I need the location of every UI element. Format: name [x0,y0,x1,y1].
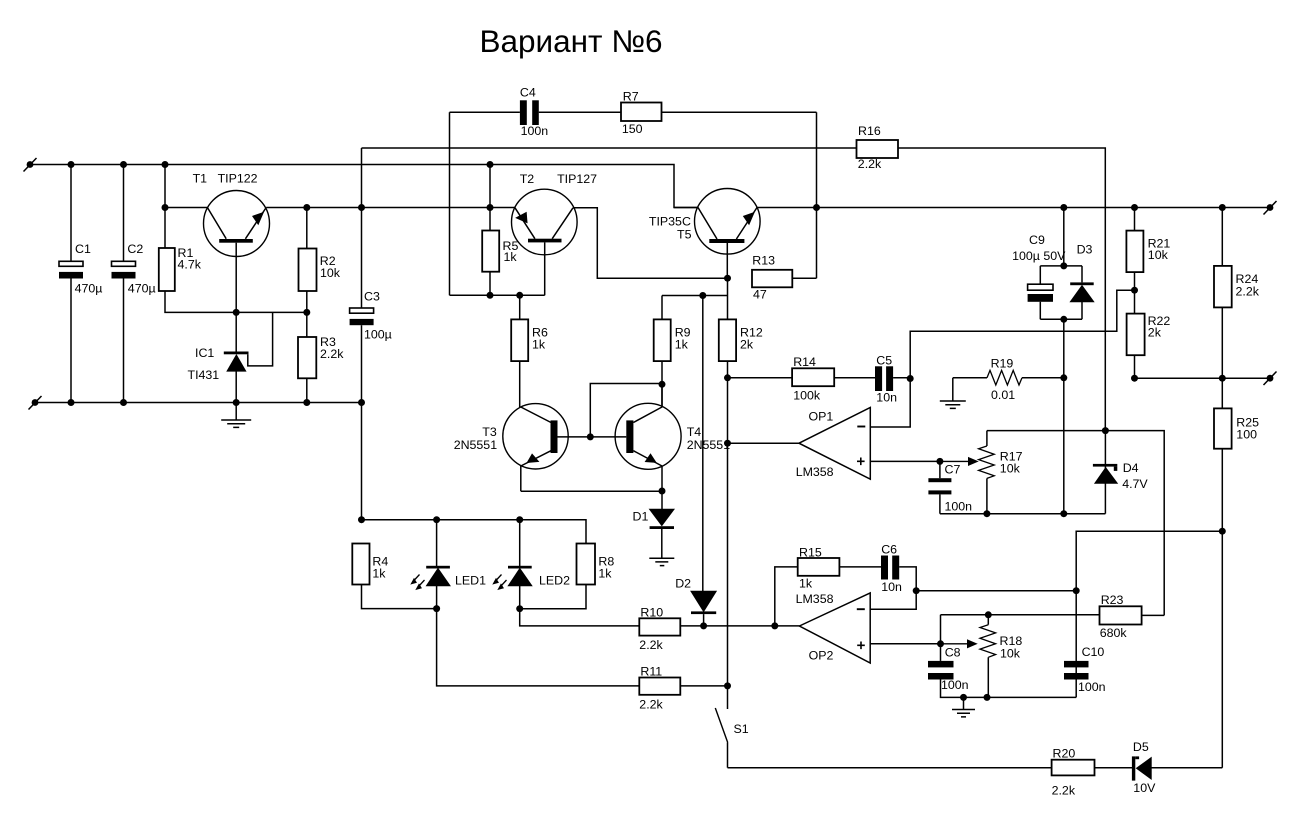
svg-text:4.7V: 4.7V [1122,477,1148,491]
potentiometer R18 10k [987,615,989,625]
wire R25 bottom to feedback loop [1076,531,1222,697]
svg-text:T1: T1 [193,172,208,186]
svg-text:470µ: 470µ [128,281,156,295]
resistor R14 100k [728,377,793,379]
node on top rail above C1 [68,161,75,168]
wire C6 node to OP2 inverting [870,591,916,610]
wire C9 column down [1063,319,1065,513]
node y207 R2 column [303,204,310,211]
svg-text:2.2k: 2.2k [1052,783,1076,797]
resistor R24 2.2k [1221,208,1223,266]
svg-text:LED1: LED1 [455,574,486,588]
svg-text:1k: 1k [675,337,689,351]
node LED2 bottom [516,605,523,612]
svg-text:4.7k: 4.7k [178,258,202,272]
node feedback C10 column [1073,587,1080,594]
svg-text:R7: R7 [623,90,639,104]
node R22 bottom [1131,375,1138,382]
output terminal right y207 [1267,204,1274,211]
svg-text:D4: D4 [1123,461,1139,475]
diode D5 10V zener [1132,756,1135,780]
wire R5 vertical [489,165,491,296]
ground under R19 [952,378,954,401]
LED1 [411,520,486,609]
svg-text:1k: 1k [598,567,612,581]
wire emitter row y295 [450,294,545,296]
node C7 R17 wiper [936,458,943,465]
resistor R9 1k [654,319,671,361]
svg-text:R15: R15 [799,546,822,560]
resistor R5 1k [482,231,499,272]
node R11 S1 column [724,682,731,689]
node y207 R21 column [1131,204,1138,211]
node y207 R1 column [162,204,169,211]
svg-text:C8: C8 [945,646,961,660]
diode D1 [661,491,663,509]
svg-text:100: 100 [1236,428,1257,442]
potentiometer R17 10k [986,431,988,446]
wire R17 top loop [987,431,1164,616]
transistor T3 2N5551 [454,404,569,492]
svg-text:100n: 100n [945,500,973,514]
svg-text:2.2k: 2.2k [320,347,344,361]
node R3 bottom rail [303,399,310,406]
svg-text:OP2: OP2 [809,649,834,663]
svg-text:R20: R20 [1053,747,1076,761]
LED2 [493,520,570,609]
node D4 top [1102,427,1109,434]
node C9 D3 top [1060,262,1067,269]
op-amp OP2 LM358 [796,592,871,663]
svg-text:LED2: LED2 [539,574,570,588]
wire top rail [30,165,698,208]
svg-text:T4: T4 [687,425,702,439]
svg-text:C6: C6 [881,543,897,557]
svg-text:100n: 100n [941,678,969,692]
ground under C8 row [963,697,965,709]
svg-text:100µ 50V: 100µ 50V [1012,249,1066,263]
diode D4 4.7V zener [1104,431,1106,514]
node R21 R22 junction [1131,287,1138,294]
svg-text:C10: C10 [1082,645,1105,659]
svg-text:T5: T5 [677,228,692,242]
node base junction [587,433,594,440]
diode D2 [702,296,704,592]
svg-text:R11: R11 [640,665,662,679]
svg-text:47: 47 [753,288,767,302]
resistor R22 2k [1134,272,1136,314]
svg-text:2.2k: 2.2k [1236,284,1260,298]
wire C6 node feedback to R23 C10 [916,590,1076,592]
svg-text:470µ: 470µ [75,281,103,295]
capacitor C1 [70,165,72,262]
svg-text:1k: 1k [504,250,518,264]
node R2-R3 junction y312 [303,309,310,316]
svg-text:D3: D3 [1077,243,1093,257]
wire right emitter row y295 [662,278,728,319]
svg-text:10k: 10k [1000,647,1021,661]
node T5 emitter R13 [724,275,731,282]
wire OP1 noninverting input [870,460,940,462]
sense terminal right y378 [1267,375,1274,382]
svg-text:D2: D2 [675,577,691,591]
resistor R6 1k [519,295,521,319]
svg-text:LM358: LM358 [796,592,834,606]
node emitters D1 [659,488,666,495]
node C5 out [907,375,914,382]
wire output column x727 [727,378,729,686]
transistor T2 TIP127 [512,172,598,295]
resistor R10 2.2k [520,609,640,626]
svg-text:2k: 2k [1148,326,1162,340]
svg-text:10V: 10V [1133,781,1156,795]
node on top rail above R5 [487,161,494,168]
svg-text:C9: C9 [1029,233,1045,247]
resistor R16 2.2k [857,140,899,158]
node R25 bottom [1219,528,1226,535]
svg-text:2.2k: 2.2k [858,157,882,171]
svg-text:OP1: OP1 [809,410,834,424]
svg-text:Вариант №6: Вариант №6 [480,23,663,59]
node D2 bottom R10 [700,622,707,629]
node y207 R13 column [813,204,820,211]
svg-text:2k: 2k [740,337,754,351]
node R4 top [358,516,365,523]
resistor R20 2.2k [1052,760,1095,776]
wire emitters row y491 [521,490,662,492]
node LED1 top [433,516,440,523]
node OP1 output x727 [724,440,731,447]
capacitor C4 100n [450,111,520,113]
wire C9 D3 bottom [1040,302,1082,320]
node R19 C9 column [1060,374,1067,381]
node R18 bottom [984,694,991,701]
svg-text:D1: D1 [633,510,649,524]
svg-text:100k: 100k [793,388,821,402]
capacitor C7 100n [939,461,941,478]
svg-text:100n: 100n [1078,680,1106,694]
svg-text:TIP127: TIP127 [557,172,597,186]
svg-text:C5: C5 [876,354,892,368]
wire y207 T2 to R13 column [573,208,728,278]
node C6 feedback [913,587,920,594]
node R12 bottom R14 [724,374,731,381]
wire collector rail y207 left [165,207,515,209]
svg-text:S1: S1 [734,722,749,736]
node C9 column bottom rail [1060,510,1067,517]
resistor R23 680k [1100,606,1142,624]
svg-text:2.2k: 2.2k [639,698,663,712]
node C9 D3 bottom [1060,316,1067,323]
svg-text:C3: C3 [364,290,380,304]
svg-text:2.2k: 2.2k [639,638,663,652]
svg-text:R23: R23 [1101,593,1124,607]
input terminal bottom-left [32,399,39,406]
diode D3 [1070,282,1094,285]
capacitor C5 10n [875,366,882,391]
svg-text:R14: R14 [793,355,816,369]
node C1 bottom rail [68,399,75,406]
capacitor C9 100u 50V [1028,284,1053,290]
input terminal top-left [27,161,34,168]
node R1-emitter junction [233,309,240,316]
node y207 R5 column [487,204,494,211]
svg-text:10n: 10n [876,390,897,404]
svg-text:100n: 100n [521,124,549,138]
svg-text:680k: 680k [1100,626,1128,640]
resistor R4 1k [352,544,369,585]
resistor R3 2.2k [298,337,316,378]
node ground C8 row [960,694,967,701]
capacitor C3 100u [361,148,363,308]
svg-text:100µ: 100µ [364,328,392,342]
svg-text:R19: R19 [991,357,1014,371]
node on top rail above C2 [120,161,127,168]
wire bottom-left rail [35,402,362,404]
svg-text:TIP122: TIP122 [218,172,258,186]
node R24 column y378 [1219,375,1226,382]
resistor R12 2k [719,319,736,361]
svg-text:10k: 10k [1148,248,1169,262]
wire R18 top row y615 [941,614,1100,616]
svg-text:150: 150 [622,122,643,136]
capacitor C6 10n [881,556,888,580]
capacitor C10 100n [1064,661,1089,668]
ground under D1 [649,558,674,565]
node y207 C9 column [1060,204,1067,211]
svg-text:C4: C4 [520,86,536,100]
svg-text:TIP35C: TIP35C [649,215,691,229]
node D2 column top [699,292,706,299]
node C3 bottom rail [358,399,365,406]
svg-text:R16: R16 [858,124,881,138]
wire C9 D3 top [1040,208,1082,285]
transistor T5 TIP35C [649,189,760,279]
svg-text:0.01: 0.01 [991,388,1015,402]
svg-text:T3: T3 [482,425,497,439]
resistor R19 0.01 [953,377,987,379]
switch S1 [727,686,729,709]
wire base to R9 column [590,384,662,437]
wire reference bottom rail y513 [940,513,1106,515]
op-amp OP1 LM358 [796,408,871,480]
svg-text:T2: T2 [520,172,535,186]
node y207 C3 column [358,204,365,211]
node R15 branch R10 [771,622,778,629]
node R9 bottom cross-couple [659,381,666,388]
svg-text:TI431: TI431 [188,368,220,382]
svg-text:1k: 1k [799,577,813,591]
svg-text:1k: 1k [532,337,546,351]
capacitor C2 [123,165,125,262]
wire sense row y378 [1135,377,1271,379]
svg-text:LM358: LM358 [796,465,834,479]
wire OP1 output [728,442,800,444]
resistor R7 150 [539,111,621,113]
svg-text:R10: R10 [640,606,663,620]
node on top rail above R1 [162,161,169,168]
svg-text:2N5551: 2N5551 [454,438,498,452]
node IC1 bottom rail [233,399,240,406]
node C2 bottom rail [120,399,127,406]
resistor R25 100 [1214,408,1232,448]
resistor R2 10k [306,208,308,249]
wire y207 rail right [674,207,1270,209]
svg-text:10k: 10k [1000,462,1021,476]
wire emitter node to R2R3 node [236,311,307,313]
resistor R1 4.7k [164,165,166,249]
wire LED top row y520 [362,520,587,544]
svg-text:10k: 10k [320,266,341,280]
svg-text:10n: 10n [881,580,902,594]
wire C3 column down to LED row [361,403,363,520]
wire C8 R18 C10 bottom row [964,696,1077,698]
node R18 top [985,611,992,618]
resistor R15 1k [775,567,798,626]
wire T3 T4 base link [558,436,627,438]
resistor R21 10k [1134,208,1136,231]
svg-text:C1: C1 [75,242,91,256]
svg-text:R13: R13 [752,254,775,268]
resistor R8 1k [577,544,596,585]
node R5 bottom [487,292,494,299]
transistor T1 TIP122 [193,172,270,313]
svg-text:D5: D5 [1133,740,1149,754]
wire R7 branch vertical x816 [816,112,818,278]
svg-text:C7: C7 [945,463,961,477]
wire OP2 noninverting input [870,615,940,644]
ground under IC1 [235,403,237,421]
resistor R11 2.2k [437,609,640,686]
wire bottom rail y767 [728,767,1223,769]
wire OP1 inverting input [870,290,1134,427]
node R17 bottom [983,510,990,517]
wire second rail y148 [362,148,1106,431]
node R6 top [516,292,523,299]
node LED2 top [516,516,523,523]
node LED1 bottom [433,605,440,612]
node OP2 plus R18 wiper [937,640,944,647]
capacitor C8 100n [940,644,942,661]
IC1 TI431 shunt regulator [188,312,273,402]
svg-text:2N5551: 2N5551 [687,438,731,452]
svg-text:C2: C2 [127,242,143,256]
transistor T4 2N5551 [615,384,730,491]
wire C4 branch vertical x449 [449,112,451,295]
svg-text:1k: 1k [372,567,386,581]
node y207 R24 column [1219,204,1226,211]
svg-text:IC1: IC1 [195,346,214,360]
